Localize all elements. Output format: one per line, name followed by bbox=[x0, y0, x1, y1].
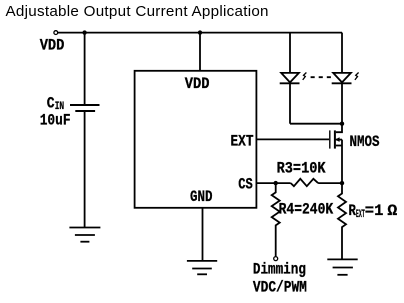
svg-text:R3=10K: R3=10K bbox=[277, 160, 326, 178]
svg-text:VDD: VDD bbox=[40, 37, 65, 55]
svg-text:VDC/PWM: VDC/PWM bbox=[253, 279, 307, 297]
svg-text:10uF: 10uF bbox=[40, 112, 71, 130]
svg-text:R4=240K: R4=240K bbox=[279, 200, 334, 218]
svg-text:Adjustable Output Current Appl: Adjustable Output Current Application bbox=[6, 3, 269, 20]
svg-text:CS: CS bbox=[238, 176, 253, 194]
svg-text:EXT: EXT bbox=[231, 133, 254, 151]
svg-text:GND: GND bbox=[190, 188, 213, 206]
svg-text:Ω: Ω bbox=[387, 202, 397, 220]
svg-text:NMOS: NMOS bbox=[350, 133, 380, 151]
svg-text:Dimming: Dimming bbox=[253, 261, 306, 279]
svg-text:VDD: VDD bbox=[185, 75, 210, 93]
svg-text:C: C bbox=[47, 95, 55, 113]
svg-text:=1: =1 bbox=[365, 202, 384, 220]
svg-text:EXT: EXT bbox=[356, 209, 365, 221]
